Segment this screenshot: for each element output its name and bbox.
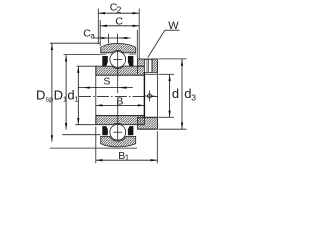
svg-text:B: B: [116, 96, 123, 108]
svg-text:a: a: [90, 31, 95, 40]
svg-text:1: 1: [74, 94, 78, 103]
svg-text:d: d: [172, 86, 179, 101]
svg-text:W: W: [168, 20, 179, 32]
svg-text:3: 3: [191, 93, 196, 103]
svg-text:D: D: [54, 87, 63, 102]
svg-text:D: D: [36, 87, 45, 102]
svg-text:1: 1: [125, 153, 130, 162]
svg-text:S: S: [103, 76, 110, 88]
svg-text:2: 2: [116, 5, 121, 15]
svg-text:C: C: [115, 16, 123, 28]
svg-text:sp: sp: [45, 94, 53, 103]
